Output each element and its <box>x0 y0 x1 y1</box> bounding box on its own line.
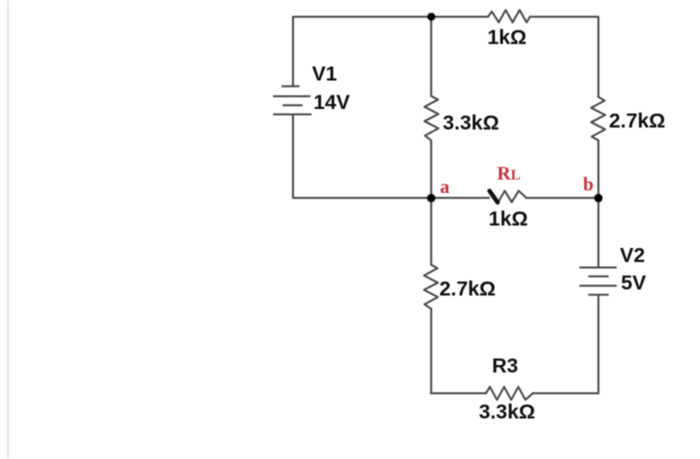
battery V2 plate long top <box>579 267 616 269</box>
svg-text:V1: V1 <box>312 63 337 86</box>
svg-text:RL: RL <box>497 163 521 184</box>
svg-text:1kΩ: 1kΩ <box>487 26 526 49</box>
wire RL left <box>431 197 489 199</box>
battery V1 plate short <box>283 104 303 106</box>
node b junction dot <box>594 194 602 202</box>
svg-text:2.7kΩ: 2.7kΩ <box>609 110 665 133</box>
wire RL right <box>526 197 598 199</box>
wire bottom right <box>533 392 599 394</box>
svg-text:1kΩ: 1kΩ <box>489 208 528 231</box>
resistor 2.7k right zigzag <box>591 97 605 141</box>
resistor RL zigzag <box>498 191 527 203</box>
wire mid between resistors <box>430 141 432 265</box>
wire top right segment <box>530 17 598 97</box>
wire top left segment <box>293 17 488 87</box>
resistor R3 zigzag <box>486 387 533 400</box>
svg-text:3.3kΩ: 3.3kΩ <box>479 401 535 424</box>
battery V2 plate short bottom <box>588 294 608 296</box>
wire right middle <box>597 141 599 268</box>
svg-text:V2: V2 <box>620 244 645 267</box>
svg-text:b: b <box>583 175 594 196</box>
battery V1 plate long <box>273 95 311 97</box>
resistor 3.3k zigzag <box>425 96 439 141</box>
resistor RL thick first stroke <box>490 191 498 203</box>
wire bottom left <box>431 392 486 394</box>
wire mid upper <box>430 17 432 96</box>
node a junction dot <box>427 194 435 202</box>
battery V1 plate short top <box>282 85 300 87</box>
junction dot top <box>427 13 435 21</box>
svg-text:5V: 5V <box>621 271 646 294</box>
svg-text:14V: 14V <box>314 91 351 114</box>
battery V2 plate short <box>588 275 608 277</box>
battery V1 plate long bottom <box>273 113 312 115</box>
battery V2 plate long <box>579 285 616 287</box>
svg-text:3.3kΩ: 3.3kΩ <box>443 112 499 135</box>
resistor R top 1k zigzag <box>488 10 530 22</box>
wire right lower <box>597 295 599 394</box>
wire mid lower <box>430 309 432 393</box>
svg-text:a: a <box>440 177 450 198</box>
svg-text:2.7kΩ: 2.7kΩ <box>439 278 495 301</box>
page edge line <box>7 0 9 459</box>
svg-text:R3: R3 <box>492 355 518 378</box>
wire left lower segment <box>293 114 431 197</box>
resistor 2.7k lower zigzag <box>424 265 438 309</box>
